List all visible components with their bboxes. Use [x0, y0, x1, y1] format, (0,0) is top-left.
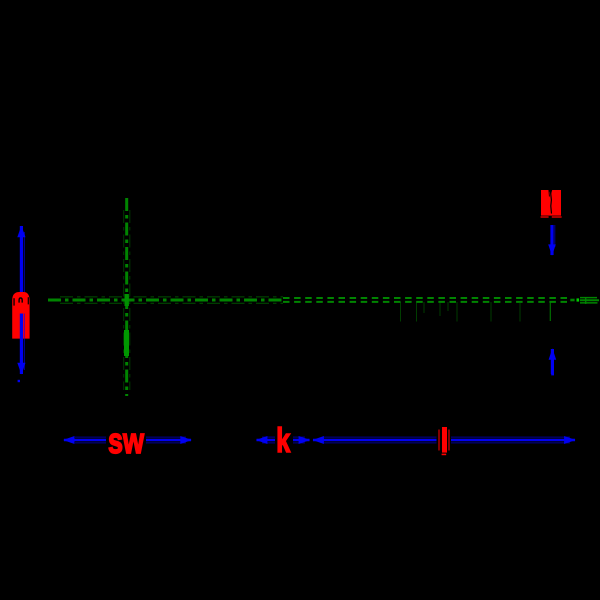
arrow down (bottom of e dimension): [17, 363, 25, 375]
label e (rotated red glyph blob on left dimension): [12, 292, 29, 339]
dimension l line (broken for label): [313, 437, 575, 443]
k right arrow: [299, 436, 311, 444]
dimension e vertical line (lower segment drawn over label): [21, 314, 24, 375]
svg-text:sw: sw: [108, 420, 145, 461]
counter hole of glyph: [19, 298, 22, 303]
arrow up (top of e dimension): [17, 226, 25, 238]
svg-text:k: k: [276, 422, 290, 460]
label l (drawn as bar with halo): [439, 427, 449, 455]
dimension k line (broken for label): [257, 437, 310, 443]
terminal dot: [551, 373, 554, 376]
sw right arrow: [180, 436, 192, 444]
centerline crossing highlight: [125, 294, 129, 306]
horizontal centerline (left coarse dash-dot part): [48, 297, 283, 303]
l left arrow: [312, 436, 324, 444]
bright dot on centerline near bolt tip: [577, 298, 580, 301]
centerline triple lines at bolt tip: [580, 297, 599, 304]
M center crack: [550, 193, 553, 214]
right slit of glyph: [28, 297, 29, 304]
thread tick near tip (brighter): [549, 302, 551, 321]
chamfer tick at tip: [585, 297, 587, 304]
sw left arrow: [63, 436, 75, 444]
dimension e vertical line (upper segment): [21, 226, 24, 292]
M apex notch: [549, 190, 553, 195]
thread flank ticks below centerline: [401, 302, 521, 322]
M dimension upper arrow (points down at thread OD): [548, 225, 556, 256]
M left crack: [548, 190, 551, 197]
M dimension lower arrow (points up at thread OD): [549, 348, 557, 375]
horizontal centerline (right dense double-dash part over thread): [283, 298, 575, 302]
l right arrow: [564, 436, 576, 444]
dimension sw line (broken for label): [64, 437, 191, 443]
left slit of glyph: [13, 298, 14, 305]
label M (thread designation, top right): [541, 190, 562, 218]
k left arrow: [256, 436, 268, 444]
M bottom halo dashes: [541, 216, 549, 217]
bright solid segment of vertical centerline below center: [124, 330, 129, 356]
vertical centerline of hex head view: [124, 198, 130, 396]
terminal dot below e arrow: [18, 380, 20, 382]
